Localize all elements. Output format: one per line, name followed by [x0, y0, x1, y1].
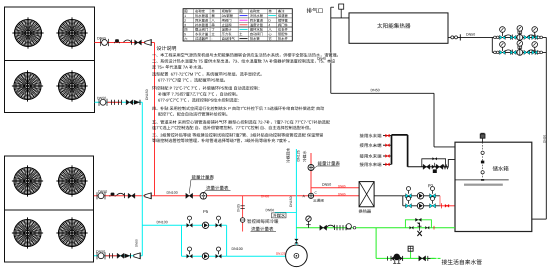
wire green main	[296, 227, 455, 229]
valve P5 row1 right	[216, 216, 222, 227]
label DN50 collector return	[371, 89, 380, 92]
auto air vent	[339, 4, 344, 9]
wire red supply from group2 and main red header	[94, 195, 359, 197]
pump P2 row2	[417, 203, 423, 209]
label solar collector	[377, 23, 410, 28]
union manifold row2 a	[494, 51, 497, 54]
label P2	[428, 184, 433, 187]
check manifold row1 left	[504, 35, 512, 40]
flex joint on group1 supply	[101, 39, 109, 46]
label water end 1	[360, 134, 382, 138]
union manifold row2 b	[496, 51, 499, 54]
storage tank	[455, 142, 532, 231]
tank sensor bar	[481, 161, 484, 164]
label DN50 cyan riser bottom	[135, 239, 137, 246]
check valve on group1 supply	[124, 40, 132, 45]
label DN50 right riser	[543, 135, 545, 143]
label riser return vertical	[286, 148, 290, 163]
tank sensor column	[482, 142, 484, 177]
valve P5 row2 right	[216, 247, 222, 258]
valve P2 row2 right	[430, 197, 436, 208]
wire red branch to room control	[242, 196, 244, 232]
union manifold row1 b	[496, 36, 499, 39]
label flow metering device	[251, 227, 273, 231]
flex joint on group2 return	[97, 252, 105, 259]
design notes title	[157, 46, 176, 51]
label DN50 group2 return	[96, 250, 105, 253]
wire manifold to tank entry	[532, 218, 547, 220]
water meter green branch	[410, 251, 412, 258]
reducer on group2 supply	[145, 193, 151, 200]
gauge manifold row2 right	[532, 42, 538, 51]
valve manifold row2 l2	[510, 50, 516, 54]
label DN50 group2 supply	[98, 190, 107, 193]
gate valve on group1 supply	[135, 40, 142, 45]
gate valve on group1 return	[126, 100, 133, 105]
bypass loop tank inlet	[422, 159, 446, 167]
label smart control valve	[247, 219, 278, 223]
wire red to tank hot inlet	[440, 205, 455, 207]
union manifold row2 d	[540, 51, 543, 54]
wire green branch bottom	[376, 257, 436, 259]
gauge manifold row2 mid	[517, 41, 523, 50]
label air vent	[307, 8, 323, 13]
wire manifold left riser	[491, 37, 493, 52]
wire P5 left riser	[181, 225, 183, 256]
tank top vent	[480, 134, 485, 138]
valve on pump riser	[294, 239, 298, 244]
wire P2 right riser	[439, 196, 441, 206]
cyan stub chilled water	[275, 211, 297, 213]
fan F8	[56, 217, 87, 248]
label DN50 exchanger upper	[322, 183, 331, 186]
gauge manifold row1 right	[532, 27, 538, 36]
wire cyan return from group1	[95, 101, 143, 103]
legend table grid	[183, 9, 292, 41]
wire P5 row2	[182, 255, 227, 257]
wire water end top run	[392, 134, 408, 136]
valve P2 row1 left	[406, 187, 412, 198]
wire exchanger outlet	[374, 195, 403, 197]
label C	[315, 191, 317, 193]
label DN50 stub	[266, 209, 274, 211]
union green main a	[337, 225, 340, 230]
relief drain green	[419, 228, 421, 231]
label DN65 red tiny upper	[338, 185, 345, 187]
red tick before tank	[433, 226, 435, 230]
valve bypass top	[432, 157, 437, 160]
wire vent to collector	[331, 17, 349, 19]
union manifold row1 c	[537, 36, 540, 39]
valve green main	[320, 225, 327, 230]
label riser supply vertical	[303, 151, 307, 162]
valve P5 row1 left	[187, 216, 193, 227]
fan F2	[56, 17, 87, 48]
label DN50 group1 return	[97, 97, 106, 100]
valve inside bypass left	[410, 226, 414, 229]
label DN65 red tiny lower	[338, 193, 345, 195]
tank sensor ball 1	[481, 151, 484, 154]
flex zigzag tank inlet	[443, 165, 449, 169]
valve tank inlet right	[436, 164, 443, 169]
union green main b	[343, 225, 346, 230]
valve manifold row2 r2	[524, 50, 530, 54]
valve manifold row1 right	[532, 35, 538, 39]
union red tank inlet	[441, 203, 443, 208]
wire collector return run	[331, 92, 434, 94]
wire red supply riser	[310, 153, 312, 196]
label flow meter	[206, 186, 228, 190]
check manifold row2 left	[504, 50, 512, 55]
label DN40	[316, 53, 331, 64]
regulator green main	[346, 224, 351, 229]
wire manifold row 2	[492, 51, 546, 53]
pressure reducing valve tank inlet	[432, 165, 438, 169]
label DN100 main header	[167, 191, 178, 194]
union on group2 return	[110, 253, 113, 258]
wire collector outlet	[448, 36, 492, 38]
flex joint on group2 supply	[97, 192, 105, 199]
tick on green main	[306, 224, 310, 226]
wire manifold row 1	[492, 36, 546, 38]
wire P2 row1	[403, 195, 440, 197]
stub water end 1	[383, 135, 392, 137]
label A	[303, 195, 305, 197]
valve P5 row2 left	[187, 247, 193, 258]
flow meter circle on main header	[200, 193, 207, 200]
check valve on group1 return	[134, 100, 140, 105]
heat exchanger	[359, 182, 374, 207]
valve manifold row2 right	[532, 50, 538, 54]
green dash to city water	[432, 257, 435, 259]
label water end 3	[360, 154, 382, 158]
label P5	[203, 210, 208, 213]
check green main	[327, 225, 335, 230]
tick green branch	[387, 256, 389, 260]
backflow preventer	[390, 256, 392, 261]
wire P2 left riser	[402, 196, 404, 206]
main circulation pump	[286, 245, 308, 267]
gauge on green main	[308, 221, 310, 227]
union manifold row1 a	[494, 36, 497, 39]
valve inside bypass right	[425, 226, 429, 229]
wire cyan to main pump	[227, 255, 286, 257]
label three way valve text	[313, 199, 323, 202]
valve manifold row1 l2	[510, 35, 516, 39]
label water end 2	[360, 143, 382, 147]
label DN100 cyan header	[157, 221, 168, 224]
label DN25 red branch	[237, 204, 239, 212]
label energy meter 2	[318, 161, 340, 165]
wire red riser down	[154, 43, 156, 196]
pump manifold row1	[517, 31, 523, 40]
valve green branch	[419, 256, 426, 261]
wire green branch down	[375, 228, 377, 259]
solar collector	[349, 13, 448, 43]
valve bypass green	[415, 218, 421, 222]
wire P2 row2	[403, 205, 440, 207]
design notes body	[152, 53, 338, 142]
union 1 on group1 return	[112, 100, 115, 105]
heat pump unit box group 2 lower	[5, 210, 94, 262]
red overlay segment on group1 return	[108, 101, 122, 103]
pump manifold row2	[517, 46, 523, 55]
three way valve	[308, 193, 313, 198]
leader line flow meter label	[204, 190, 206, 192]
label DN65 group1 supply	[97, 37, 106, 40]
check valve on group2 return	[125, 253, 131, 258]
wire cyan riser down	[141, 102, 143, 256]
tank sensor ball 2	[481, 171, 484, 174]
label water end 4	[360, 162, 382, 166]
butterfly valve on main header	[186, 193, 193, 198]
valve water end 3	[386, 154, 390, 157]
valve manifold row1 r2	[524, 35, 530, 39]
valve red tank inlet	[445, 204, 449, 207]
valve P2 row2 left	[406, 197, 412, 208]
gauge manifold row2 left	[500, 42, 506, 51]
valve tank inlet left	[423, 164, 430, 169]
air vent tick	[331, 6, 334, 8]
stub water end 4	[383, 163, 392, 165]
wire cyan pump riser	[295, 149, 297, 245]
wire P5 row1	[182, 224, 227, 226]
union collector outlet b	[455, 36, 458, 39]
wire jog up to tank	[448, 160, 455, 167]
bypass loop green	[405, 220, 431, 228]
gauge manifold row1 mid	[517, 26, 523, 35]
energy meter on riser	[308, 165, 314, 171]
tank water level line	[455, 179, 509, 181]
reducer on group2 return	[134, 253, 140, 260]
smart control valve	[240, 218, 245, 223]
tick collector outlet	[459, 34, 461, 40]
motor blob on group1 supply	[114, 39, 119, 43]
valve water end 4	[386, 163, 390, 166]
heat pump unit box group 1 lower	[5, 61, 95, 113]
leader line energy meter label	[189, 180, 191, 194]
check manifold row1 right	[527, 35, 535, 40]
label city water	[442, 259, 482, 264]
valve manifold row2 left	[500, 50, 506, 54]
wire red supply from group1	[95, 42, 155, 44]
fan F6	[56, 165, 87, 196]
wire cyan return from group2	[94, 255, 142, 257]
fan F4	[56, 70, 87, 101]
union 2 on group1 return	[119, 100, 122, 105]
heat pump unit box group 2 upper	[5, 156, 94, 210]
legend color samples	[240, 15, 248, 17]
pump P2 row1	[417, 193, 423, 199]
heat pump unit box group 1 upper	[5, 7, 95, 61]
label DN125 red tiny	[276, 253, 285, 255]
label energy meter 1	[192, 175, 214, 179]
gauge manifold row1 left	[500, 27, 506, 36]
union collector outlet a	[451, 36, 454, 39]
wire collector return down	[433, 93, 435, 147]
tank sensor foot	[481, 179, 484, 181]
label storage tank	[493, 166, 509, 171]
valve P2 row1 right	[430, 187, 436, 198]
gate valve on group2 supply	[128, 193, 135, 198]
gate valve on group2 return	[117, 253, 124, 258]
fan F5	[12, 165, 43, 196]
check valve on group2 supply	[117, 193, 125, 198]
valve water end 2	[386, 144, 390, 147]
flex joint on group1 return	[99, 99, 107, 106]
union green main c	[353, 226, 356, 229]
fan F1	[12, 17, 43, 48]
legend table text	[184, 10, 287, 41]
valve water end 1	[386, 134, 390, 137]
tank diffuser plate	[464, 184, 503, 186]
pump P5 row2	[202, 253, 208, 259]
label heat exchanger	[359, 209, 371, 213]
label DN100 pump suction	[232, 247, 243, 250]
wire vent riser	[330, 7, 332, 93]
wire cyan header to P5	[142, 224, 181, 226]
motor blob on group2 supply	[110, 193, 115, 197]
label DN125 riser vertical	[297, 150, 300, 161]
fan F7	[12, 217, 43, 248]
wire to tank inlet assembly	[408, 166, 449, 168]
stub water end 3	[383, 155, 392, 157]
tick green branch end	[427, 256, 429, 261]
union manifold row1 d	[540, 36, 543, 39]
check manifold row2 right	[527, 50, 535, 55]
drain square below tank inlet	[433, 169, 437, 173]
wire water end collector vertical	[391, 135, 393, 165]
label DN100 red mid	[261, 195, 269, 197]
label DN150 riser	[146, 90, 148, 100]
reducer on group1 supply	[145, 39, 151, 46]
wire collector return to tank	[434, 146, 455, 148]
valve manifold row1 left	[500, 35, 506, 39]
red overlay segment on group2 return	[105, 255, 118, 257]
union on red branch	[240, 205, 244, 207]
wire P5 right riser	[226, 225, 228, 256]
wire water end down run	[407, 135, 409, 167]
wire red to exchanger upper	[311, 187, 359, 189]
label DN150 pump riser	[290, 197, 292, 207]
label chilled water box	[272, 213, 287, 218]
pump P5 row1	[202, 222, 208, 228]
union manifold row2 c	[537, 51, 540, 54]
stub water end 2	[383, 144, 392, 146]
fan F3	[12, 70, 43, 101]
label DN50 collector outlet	[466, 33, 475, 36]
prv on green main	[419, 223, 421, 228]
wire manifold right riser to tank	[545, 37, 547, 219]
